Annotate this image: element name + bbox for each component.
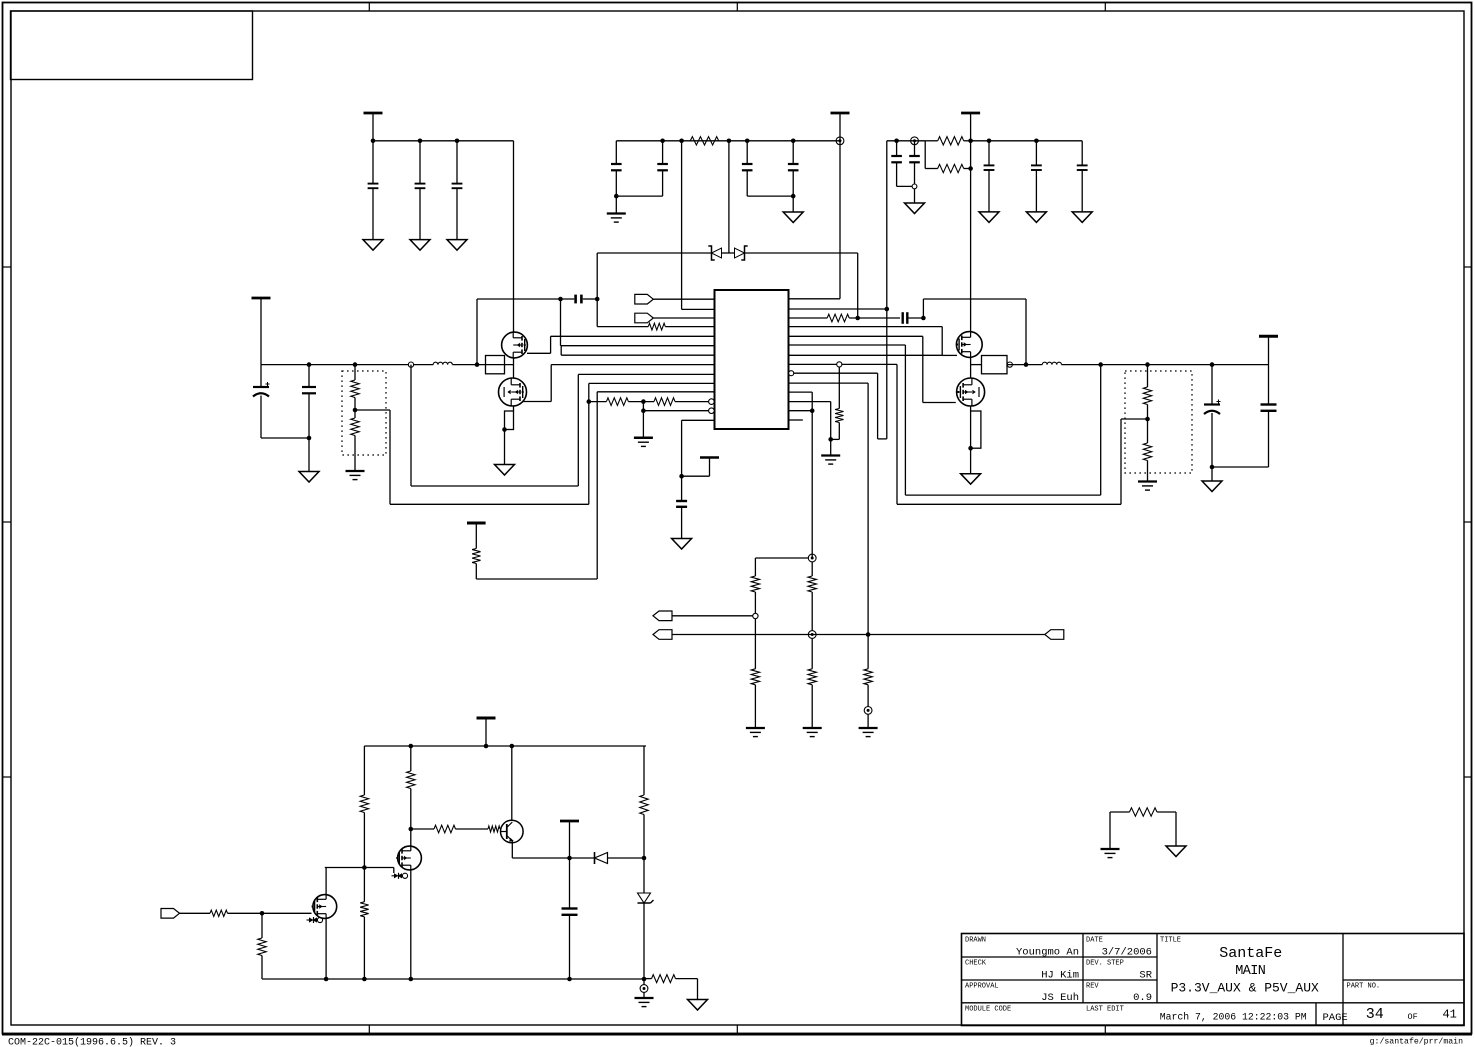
- svg-text:MAIN: MAIN: [1235, 964, 1266, 979]
- svg-text:PART NO.: PART NO.: [1347, 983, 1381, 991]
- svg-text:3/7/2006: 3/7/2006: [1102, 947, 1152, 959]
- svg-text:DATE: DATE: [1086, 937, 1103, 945]
- svg-text:TITLE: TITLE: [1160, 937, 1181, 945]
- svg-text:JS Euh: JS Euh: [1041, 992, 1079, 1004]
- svg-text:DEV. STEP: DEV. STEP: [1086, 960, 1124, 968]
- svg-text:LAST EDIT: LAST EDIT: [1086, 1005, 1124, 1013]
- svg-text:APPROVAL: APPROVAL: [965, 983, 999, 991]
- svg-text:CHECK: CHECK: [965, 960, 987, 968]
- svg-text:PAGE: PAGE: [1323, 1012, 1348, 1024]
- svg-text:REV: REV: [1086, 983, 1099, 991]
- svg-text:g:/santafe/prr/main: g:/santafe/prr/main: [1370, 1037, 1463, 1047]
- svg-text:41: 41: [1442, 1008, 1456, 1022]
- svg-text:SantaFe: SantaFe: [1219, 945, 1282, 962]
- svg-text:0.9: 0.9: [1133, 992, 1152, 1004]
- svg-text:March 7, 2006 12:22:03 PM: March 7, 2006 12:22:03 PM: [1160, 1012, 1307, 1023]
- svg-text:SR: SR: [1139, 970, 1152, 982]
- svg-text:MODULE CODE: MODULE CODE: [965, 1005, 1011, 1013]
- svg-text:P3.3V_AUX & P5V_AUX: P3.3V_AUX & P5V_AUX: [1171, 981, 1319, 996]
- svg-text:OF: OF: [1408, 1012, 1418, 1022]
- svg-text:34: 34: [1366, 1006, 1384, 1023]
- svg-text:COM-22C-015(1996.6.5) REV. 3: COM-22C-015(1996.6.5) REV. 3: [8, 1037, 176, 1047]
- svg-text:DRAWN: DRAWN: [965, 937, 986, 945]
- svg-text:Youngmo An: Youngmo An: [1016, 947, 1079, 959]
- svg-text:HJ Kim: HJ Kim: [1041, 970, 1079, 982]
